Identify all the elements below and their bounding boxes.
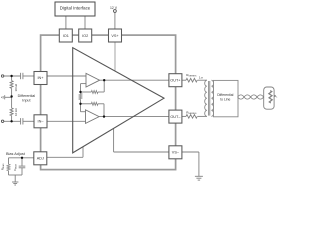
svg-text:VS+: VS+ bbox=[111, 34, 119, 38]
svg-text:Differential: Differential bbox=[217, 93, 233, 97]
svg-text:Digital Interface: Digital Interface bbox=[60, 5, 91, 10]
svg-text:12 V: 12 V bbox=[110, 6, 118, 10]
svg-text:IO2: IO2 bbox=[82, 34, 88, 38]
svg-text:IN+: IN+ bbox=[37, 76, 44, 80]
svg-text:Input: Input bbox=[22, 99, 30, 103]
svg-text:IO1: IO1 bbox=[63, 34, 69, 38]
svg-text:RL: RL bbox=[274, 94, 278, 99]
svg-text:OUT–: OUT– bbox=[170, 115, 181, 119]
svg-text:10 kΩ: 10 kΩ bbox=[14, 108, 18, 116]
svg-text:10 kΩ: 10 kΩ bbox=[14, 83, 18, 91]
svg-text:RBIAS: RBIAS bbox=[0, 163, 5, 170]
svg-text:VS–: VS– bbox=[172, 151, 180, 155]
svg-text:ADJ: ADJ bbox=[37, 157, 44, 161]
svg-text:1:n: 1:n bbox=[199, 75, 204, 79]
svg-text:Differential: Differential bbox=[18, 94, 36, 98]
svg-text:IN–: IN– bbox=[38, 120, 45, 124]
svg-text:OUT+: OUT+ bbox=[170, 78, 181, 82]
svg-text:CBIAS: CBIAS bbox=[13, 163, 18, 170]
svg-text:to Line: to Line bbox=[220, 98, 230, 102]
svg-text:RSERIES: RSERIES bbox=[186, 73, 197, 78]
svg-text:RSERIES: RSERIES bbox=[186, 110, 197, 115]
svg-text:Bias Adjust: Bias Adjust bbox=[6, 152, 26, 156]
